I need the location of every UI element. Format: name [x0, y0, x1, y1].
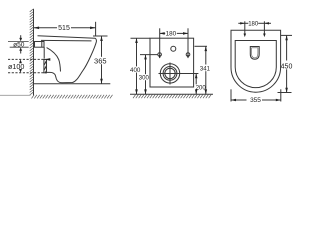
svg-text:ø100: ø100 [8, 62, 24, 71]
svg-text:200: 200 [196, 85, 207, 91]
svg-text:180: 180 [166, 31, 177, 38]
svg-text:341: 341 [200, 67, 211, 73]
svg-text:180: 180 [248, 22, 259, 28]
svg-text:365: 365 [94, 56, 107, 65]
svg-text:ø50: ø50 [13, 41, 25, 48]
svg-text:300: 300 [139, 76, 150, 82]
svg-text:355: 355 [250, 97, 261, 104]
svg-text:400: 400 [130, 67, 141, 74]
svg-text:450: 450 [281, 64, 293, 71]
svg-text:515: 515 [58, 25, 70, 32]
